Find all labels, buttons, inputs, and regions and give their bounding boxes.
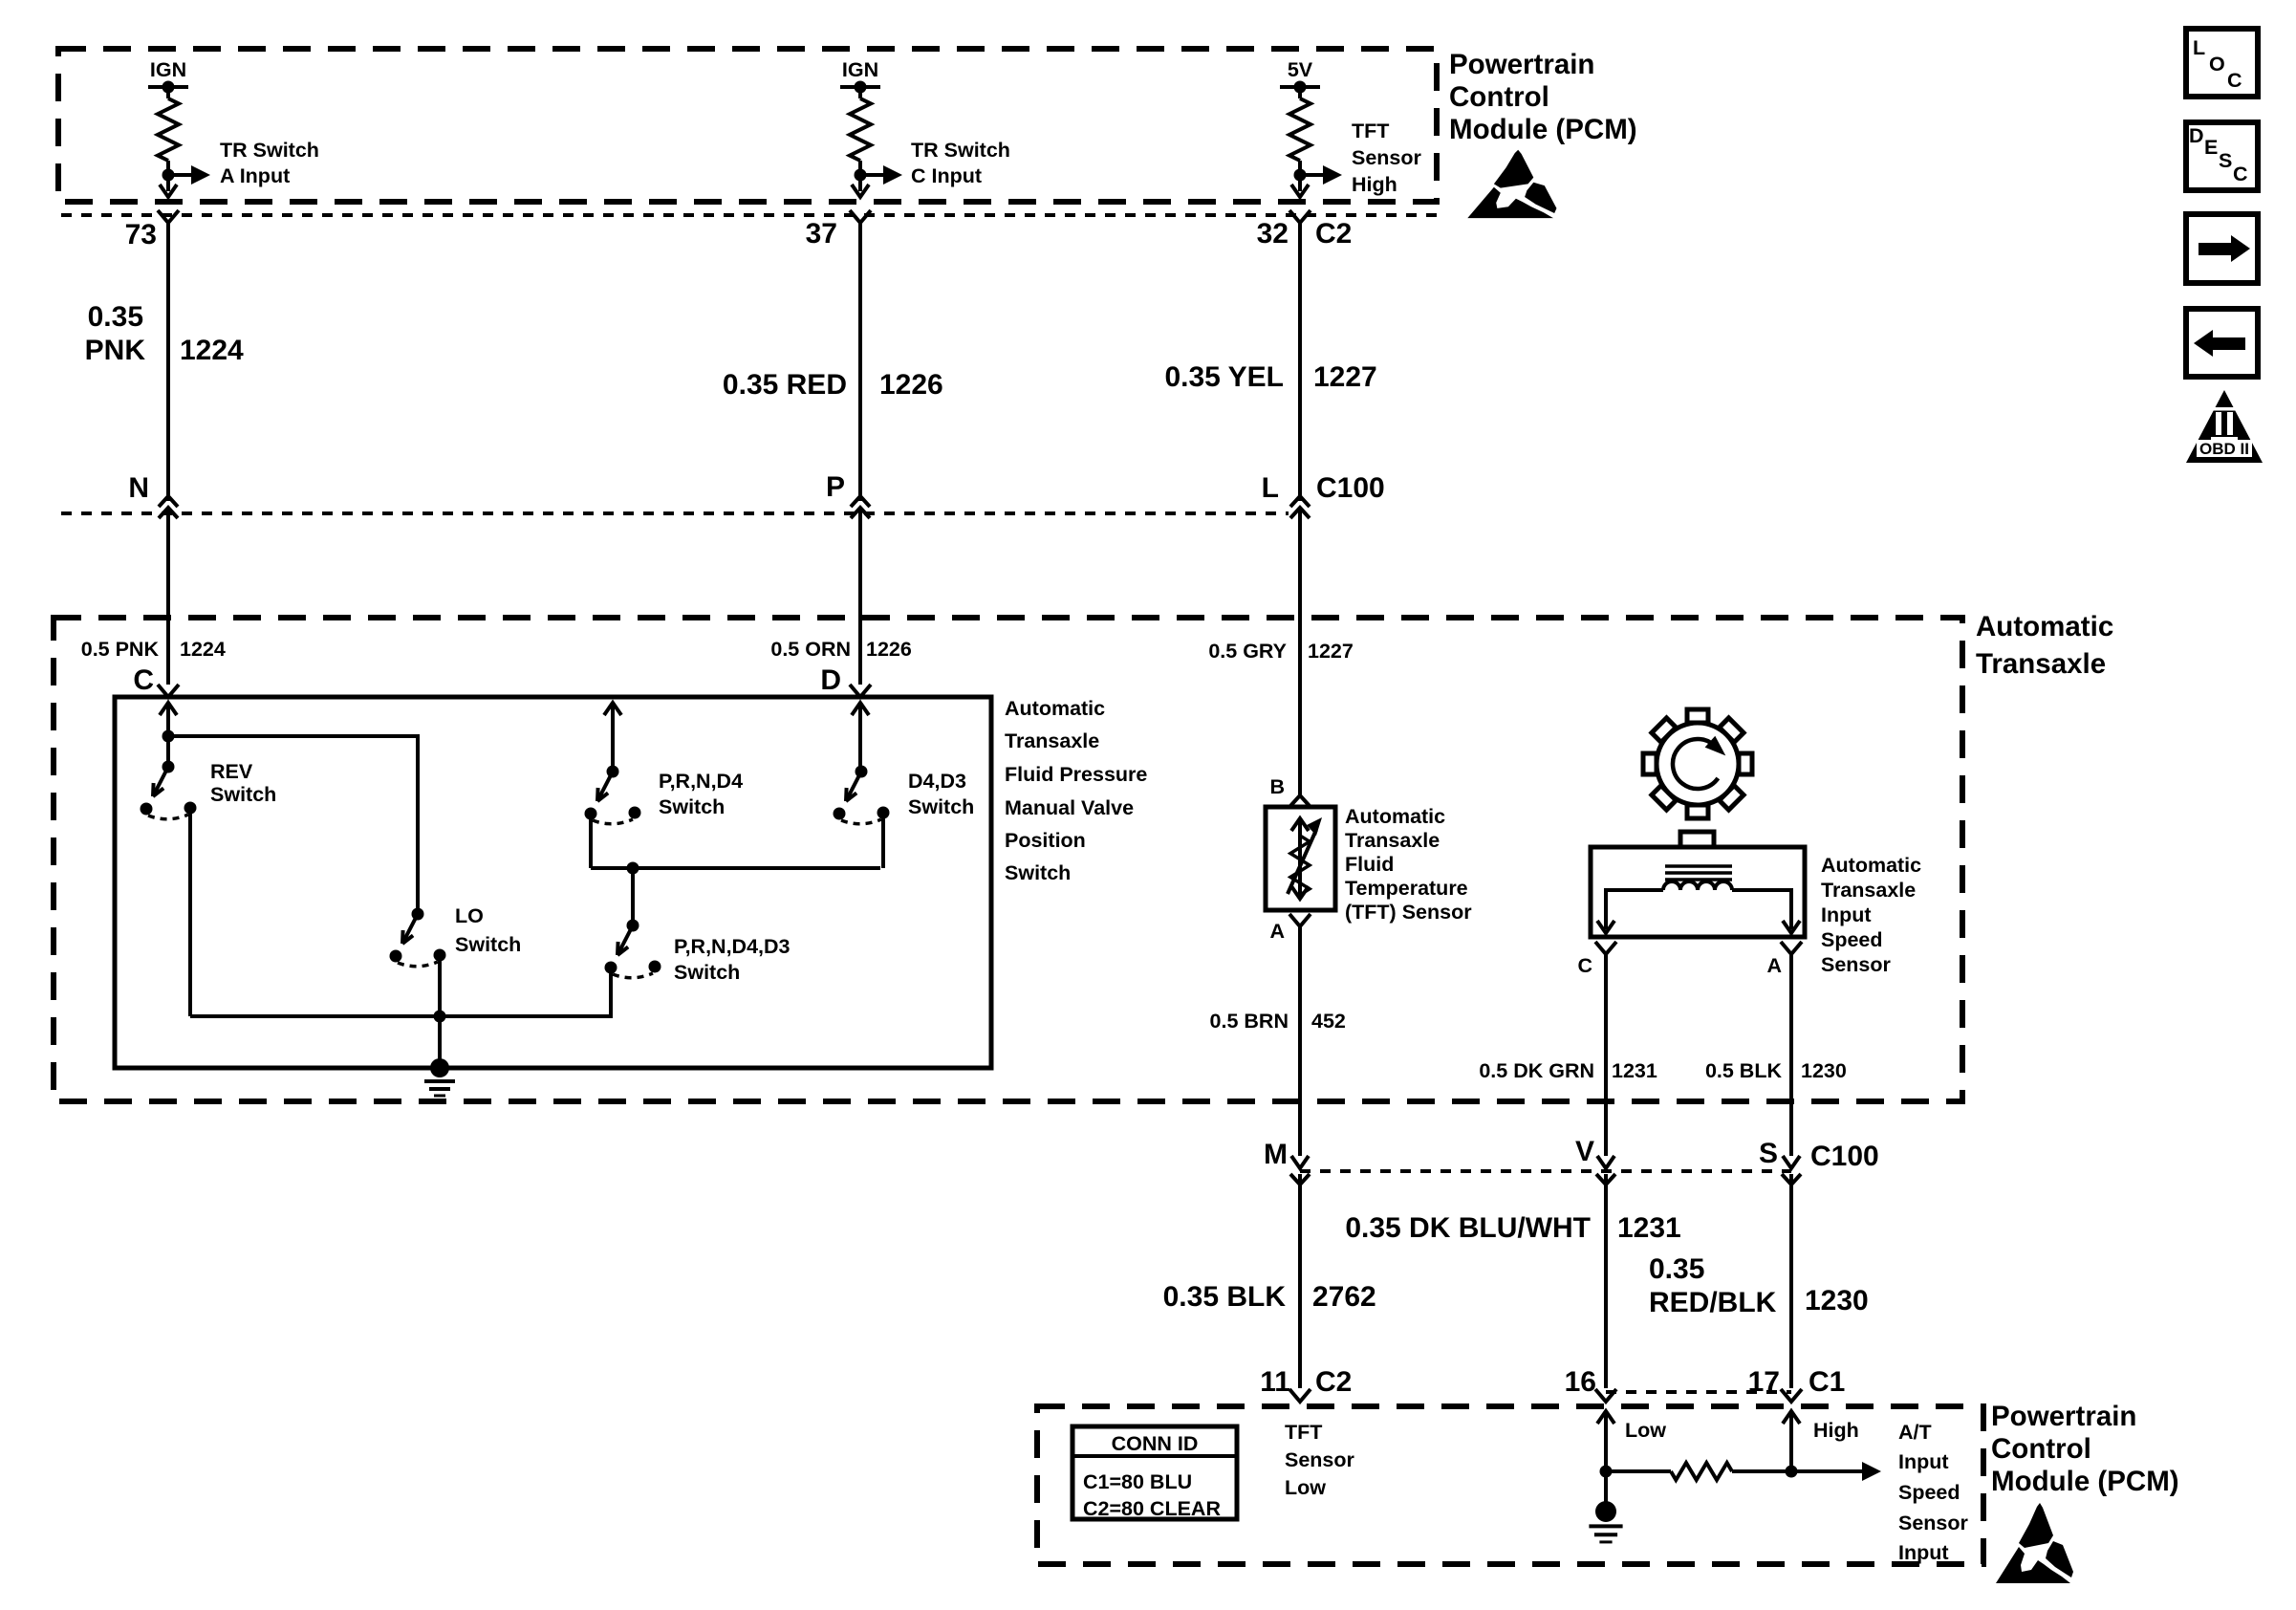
power feed bar x=1360 xyxy=(1280,85,1320,89)
forward arrow icon box xyxy=(2186,214,2258,283)
svg-text:P,R,N,D4: P,R,N,D4 xyxy=(659,770,743,793)
down arrowhead at speed sensor A pin xyxy=(1783,921,1800,933)
svg-text:Transaxle: Transaxle xyxy=(1821,879,1916,902)
down arrowhead at speed sensor C pin xyxy=(1597,921,1614,933)
wire 0.35 YEL 1227 upper segment xyxy=(1298,223,1302,501)
connector Y at speed sensor terminal C xyxy=(1595,942,1616,954)
svg-text:L: L xyxy=(2193,36,2205,59)
svg-text:1231: 1231 xyxy=(1612,1059,1657,1082)
svg-text:0.5 PNK: 0.5 PNK xyxy=(81,638,160,661)
branch wire to input arrow x=176 xyxy=(168,173,191,177)
junction dot to input arrow x=1360 xyxy=(1294,169,1307,182)
ESD sensitivity symbol (top PCM) xyxy=(1467,150,1556,218)
TFT sensor variable resistor symbol xyxy=(1288,817,1322,899)
svg-text:C2=80 CLEAR: C2=80 CLEAR xyxy=(1083,1497,1221,1520)
dashed connector segment between pins 16 and 17 xyxy=(1606,1390,1791,1394)
connector C100 chevrons x=900 xyxy=(851,496,870,507)
svg-text:Automatic: Automatic xyxy=(1976,611,2113,642)
junction dot LO wire and ground bus xyxy=(434,1011,446,1023)
wire D entry down to D4,D3 switch pivot xyxy=(858,703,862,772)
svg-text:TR Switch: TR Switch xyxy=(911,139,1010,162)
P,R,N,D4 Switch xyxy=(585,766,641,824)
speed sensor internal wire to A pin xyxy=(1732,890,1791,929)
wire 0.5 GRY 1227 into transaxle xyxy=(1298,508,1302,794)
svg-text:0.35: 0.35 xyxy=(1649,1253,1704,1285)
svg-text:C: C xyxy=(133,664,154,696)
pull-up resistor x=1360 xyxy=(1289,98,1310,161)
wire pin 16 down to ground xyxy=(1604,1411,1608,1503)
connector chevron below C100 line x=1680 xyxy=(1596,1174,1615,1185)
svg-text:Sensor: Sensor xyxy=(1898,1512,1969,1534)
svg-text:LO: LO xyxy=(455,904,484,927)
svg-text:0.35: 0.35 xyxy=(88,301,143,333)
svg-text:C Input: C Input xyxy=(911,164,982,187)
svg-text:0.35 BLK: 0.35 BLK xyxy=(1163,1281,1287,1313)
svg-text:Input: Input xyxy=(1898,1541,1949,1564)
svg-text:Switch: Switch xyxy=(659,795,725,818)
svg-text:P: P xyxy=(826,471,845,503)
svg-text:Control: Control xyxy=(1449,81,1549,113)
svg-text:P,R,N,D4,D3: P,R,N,D4,D3 xyxy=(674,935,791,958)
junction dot to input arrow x=900 xyxy=(855,169,867,182)
svg-text:B: B xyxy=(1269,775,1285,798)
wire resistor to A/T input arrow xyxy=(1732,1469,1866,1473)
svg-text:D4,D3: D4,D3 xyxy=(908,770,966,793)
speed sensor coil xyxy=(1663,881,1732,890)
svg-text:C1=80 BLU: C1=80 BLU xyxy=(1083,1470,1192,1493)
svg-text:5V: 5V xyxy=(1288,58,1313,81)
svg-text:Switch: Switch xyxy=(210,783,276,806)
power feed junction dot x=900 xyxy=(855,81,867,94)
svg-text:Module (PCM): Module (PCM) xyxy=(1991,1466,2179,1497)
svg-text:TR Switch: TR Switch xyxy=(220,139,319,162)
svg-text:TFT: TFT xyxy=(1352,120,1389,142)
up arrowhead at C entry inside valve switch box xyxy=(160,703,177,715)
svg-text:Sensor: Sensor xyxy=(1352,146,1422,169)
svg-text:Speed: Speed xyxy=(1898,1481,1960,1504)
svg-text:Fluid: Fluid xyxy=(1345,853,1394,876)
svg-text:TFT: TFT xyxy=(1285,1421,1322,1444)
svg-text:Powertrain: Powertrain xyxy=(1449,49,1594,80)
wire 0.35 PNK 1224 upper segment xyxy=(166,223,170,501)
LOC navigation icon box xyxy=(2186,29,2258,97)
svg-text:S: S xyxy=(2219,149,2232,172)
svg-text:A/T: A/T xyxy=(1898,1421,1932,1444)
wire 0.5 BRN 452 xyxy=(1298,926,1302,1156)
svg-text:452: 452 xyxy=(1311,1010,1346,1033)
svg-text:C: C xyxy=(2227,69,2242,92)
down arrowhead at PCM box exit x=1360 xyxy=(1291,185,1309,197)
connector Y at terminal C xyxy=(158,685,179,697)
svg-text:L: L xyxy=(1262,472,1279,504)
svg-text:1231: 1231 xyxy=(1617,1212,1681,1244)
svg-text:1226: 1226 xyxy=(866,638,912,661)
svg-text:1230: 1230 xyxy=(1801,1059,1847,1082)
svg-text:1224: 1224 xyxy=(180,335,244,366)
connector Y at TFT terminal A xyxy=(1289,914,1310,926)
connector C100 (lower) dashed splice line xyxy=(1300,1169,1791,1173)
connector C2 Y symbol x=1360 xyxy=(1289,210,1310,223)
up arrowhead at D entry inside valve switch box xyxy=(852,703,869,715)
svg-text:Transaxle: Transaxle xyxy=(1345,829,1440,852)
down arrowhead at PCM box exit x=900 xyxy=(852,185,869,197)
wire 0.35 RED/BLK 1230 xyxy=(1789,1174,1793,1388)
wire from REV switch right contact down to ground bus xyxy=(188,809,192,1016)
svg-text:Switch: Switch xyxy=(1005,861,1071,884)
connector Y at terminal D xyxy=(850,685,871,697)
up arrowhead at pin 16 inside PCM xyxy=(1597,1411,1614,1424)
connector Y at bottom PCM pin x=1874 xyxy=(1781,1389,1802,1402)
wire from P,R,N,D4 left contact down to bus xyxy=(589,814,593,868)
svg-text:S: S xyxy=(1759,1138,1778,1169)
svg-text:Low: Low xyxy=(1285,1476,1326,1499)
branch wire from C junction to LO switch xyxy=(168,736,418,914)
connector C100 chevrons x=1360 xyxy=(1290,496,1310,507)
pull-up resistor x=900 xyxy=(850,98,871,161)
junction dot high reference xyxy=(1786,1466,1798,1478)
svg-text:OBD II: OBD II xyxy=(2199,440,2249,458)
svg-text:Automatic: Automatic xyxy=(1005,697,1105,720)
wire 0.5 PNK 1224 into transaxle xyxy=(166,508,170,685)
svg-text:0.5 GRY: 0.5 GRY xyxy=(1208,640,1287,663)
wire junction to internal resistor xyxy=(1606,1469,1671,1473)
wire resistor to output x=176 xyxy=(166,161,170,191)
svg-text:High: High xyxy=(1813,1419,1859,1442)
PCM (top) dashed enclosure box xyxy=(58,49,1437,202)
svg-text:D: D xyxy=(820,664,841,696)
junction dot C branch xyxy=(162,730,175,743)
svg-text:0.5 BRN: 0.5 BRN xyxy=(1210,1010,1289,1033)
wire from feed to resistor x=900 xyxy=(858,87,862,98)
connector C2 Y symbol x=900 xyxy=(850,210,871,223)
svg-text:Sensor: Sensor xyxy=(1821,953,1892,976)
wire 0.35 RED 1226 upper segment xyxy=(858,223,862,501)
svg-text:M: M xyxy=(1264,1139,1288,1170)
connector C100 chevrons x=176 xyxy=(159,496,178,507)
svg-text:E: E xyxy=(2204,136,2218,159)
svg-text:0.35 DK BLU/WHT: 0.35 DK BLU/WHT xyxy=(1345,1212,1591,1244)
input signal arrow x=176 xyxy=(191,165,210,185)
ESD sensitivity symbol (bottom PCM) xyxy=(1996,1503,2073,1583)
internal resistor (speed sensor input) xyxy=(1671,1463,1732,1480)
wire down to P,R,N,D4 switch pivot xyxy=(611,703,615,772)
wire C entry down to REV switch pivot xyxy=(166,703,170,767)
REV Switch xyxy=(141,761,197,819)
svg-text:0.5 ORN: 0.5 ORN xyxy=(770,638,851,661)
svg-text:0.35 RED: 0.35 RED xyxy=(723,369,847,401)
wire pin 17 down to junction xyxy=(1789,1411,1793,1471)
wire 0.5 ORN 1226 into transaxle xyxy=(858,508,862,685)
svg-text:Switch: Switch xyxy=(455,933,521,956)
connector chevron below C100 line x=1360 xyxy=(1290,1174,1310,1185)
A/T input speed sensor input arrow xyxy=(1862,1462,1881,1481)
down arrowhead at PCM box exit x=176 xyxy=(160,185,177,197)
wire 0.5 DK GRN 1231 xyxy=(1604,954,1608,1156)
branch wire to input arrow x=900 xyxy=(860,173,883,177)
connector C100 dashed splice line xyxy=(61,511,1289,515)
PCM (bottom) dashed enclosure box xyxy=(1037,1406,1983,1564)
wire from bus junction to P,R,N,D4,D3 pivot xyxy=(631,868,635,925)
junction dot on switch bus xyxy=(627,862,639,875)
ground symbol (valve position switch) xyxy=(424,1058,455,1096)
speed sensor core lines xyxy=(1665,864,1732,868)
svg-text:N: N xyxy=(128,472,149,504)
svg-text:O: O xyxy=(2209,53,2225,76)
wire resistor to output x=1360 xyxy=(1298,161,1302,191)
up arrowhead at pin 17 inside PCM xyxy=(1783,1411,1800,1424)
svg-text:1224: 1224 xyxy=(180,638,226,661)
wire from D4,D3 right contact down to bus xyxy=(881,814,885,868)
power feed junction dot x=1360 xyxy=(1294,81,1307,94)
svg-text:0.5 BLK: 0.5 BLK xyxy=(1705,1059,1783,1082)
power feed bar x=900 xyxy=(840,85,880,89)
svg-text:32: 32 xyxy=(1257,218,1289,250)
connector C2 Y symbol x=176 xyxy=(158,210,179,223)
DESC navigation icon box xyxy=(2186,122,2258,190)
svg-text:A: A xyxy=(1269,920,1285,943)
speed sensor mounting tab xyxy=(1680,832,1714,847)
svg-text:Transaxle: Transaxle xyxy=(1976,648,2106,680)
svg-text:Low: Low xyxy=(1625,1419,1666,1442)
svg-text:C2: C2 xyxy=(1315,218,1352,250)
svg-text:17: 17 xyxy=(1748,1366,1780,1398)
speed sensor internal wire to C pin xyxy=(1606,890,1663,929)
wire 0.35 DK BLU/WHT 1231 xyxy=(1604,1174,1608,1388)
connector Y at bottom PCM pin x=1680 xyxy=(1595,1389,1616,1402)
gear icon (input speed sensor rotor) xyxy=(1643,709,1752,818)
svg-text:37: 37 xyxy=(806,218,837,250)
ground bus wire to P,R,N,D4,D3 left contact xyxy=(190,968,611,1016)
svg-text:73: 73 xyxy=(125,219,157,250)
svg-text:Input: Input xyxy=(1898,1450,1949,1473)
svg-text:CONN ID: CONN ID xyxy=(1112,1432,1199,1455)
svg-text:1227: 1227 xyxy=(1313,361,1377,393)
OBD II triangle icon xyxy=(2186,390,2263,463)
svg-text:Module (PCM): Module (PCM) xyxy=(1449,114,1637,145)
svg-text:V: V xyxy=(1575,1136,1594,1167)
svg-text:Powertrain: Powertrain xyxy=(1991,1401,2136,1432)
svg-text:Switch: Switch xyxy=(674,961,740,984)
down arrowhead at C100 lower connector x=1874 xyxy=(1783,1156,1800,1168)
svg-text:0.35 YEL: 0.35 YEL xyxy=(1164,361,1284,393)
svg-text:16: 16 xyxy=(1565,1366,1596,1398)
svg-text:Input: Input xyxy=(1821,903,1872,926)
Automatic Transaxle Fluid Temperature (TFT) Sensor box xyxy=(1266,807,1335,910)
svg-text:Temperature: Temperature xyxy=(1345,877,1468,900)
svg-text:C2: C2 xyxy=(1315,1366,1352,1398)
connector chevron at TFT sensor terminal B xyxy=(1290,795,1310,806)
svg-text:C: C xyxy=(2233,163,2248,185)
connector Y at speed sensor terminal A xyxy=(1781,942,1802,954)
Automatic Transaxle Input Speed Sensor box xyxy=(1591,847,1805,937)
connector C2 dashed splice line xyxy=(61,213,1437,217)
svg-text:Automatic: Automatic xyxy=(1345,805,1445,828)
svg-text:PNK: PNK xyxy=(85,335,146,366)
svg-text:11: 11 xyxy=(1260,1366,1290,1398)
wire 0.5 BLK 1230 xyxy=(1789,954,1793,1156)
svg-text:Manual Valve: Manual Valve xyxy=(1005,796,1134,819)
svg-text:A: A xyxy=(1766,954,1782,977)
power feed bar x=176 xyxy=(148,85,188,89)
P,R,N,D4,D3 Switch xyxy=(605,920,661,978)
svg-text:C100: C100 xyxy=(1316,472,1385,504)
input signal arrow x=900 xyxy=(883,165,902,185)
svg-text:A Input: A Input xyxy=(220,164,290,187)
power feed junction dot x=176 xyxy=(162,81,175,94)
pull-up resistor x=176 xyxy=(158,98,179,161)
down arrowhead at C100 lower connector x=1680 xyxy=(1597,1156,1614,1168)
svg-text:C1: C1 xyxy=(1809,1366,1845,1398)
CONN ID table header separator xyxy=(1072,1454,1237,1458)
svg-text:Speed: Speed xyxy=(1821,928,1883,951)
svg-text:D: D xyxy=(2189,124,2204,147)
svg-text:C100: C100 xyxy=(1810,1141,1879,1172)
input signal arrow x=1360 xyxy=(1323,165,1342,185)
svg-text:Position: Position xyxy=(1005,829,1086,852)
branch wire to input arrow x=1360 xyxy=(1300,173,1323,177)
down arrowhead at C100 lower connector x=1360 xyxy=(1291,1156,1309,1168)
D4,D3 Switch xyxy=(834,766,890,824)
junction dot low reference xyxy=(1600,1466,1613,1478)
svg-text:Sensor: Sensor xyxy=(1285,1448,1355,1471)
svg-text:High: High xyxy=(1352,173,1397,196)
back arrow icon box xyxy=(2186,309,2258,377)
svg-text:(TFT) Sensor: (TFT) Sensor xyxy=(1345,901,1472,924)
svg-text:Fluid Pressure: Fluid Pressure xyxy=(1005,763,1147,786)
bus wire joining P,R,N,D4 and D4,D3 contacts xyxy=(591,866,880,870)
svg-text:REV: REV xyxy=(210,760,253,783)
Automatic Transaxle dashed enclosure box xyxy=(54,618,1962,1101)
svg-text:1230: 1230 xyxy=(1805,1285,1869,1316)
connector chevron below C100 line x=1874 xyxy=(1782,1174,1801,1185)
svg-text:Control: Control xyxy=(1991,1433,2091,1465)
svg-text:1226: 1226 xyxy=(879,369,943,401)
connector Y at bottom PCM pin x=1360 xyxy=(1289,1389,1310,1402)
svg-text:Transaxle: Transaxle xyxy=(1005,729,1099,752)
wire resistor to output x=900 xyxy=(858,161,862,191)
wire 0.35 BLK 2762 xyxy=(1298,1174,1302,1388)
svg-text:Automatic: Automatic xyxy=(1821,854,1921,877)
junction dot to input arrow x=176 xyxy=(162,169,175,182)
svg-text:C: C xyxy=(1577,954,1592,977)
wire from feed to resistor x=1360 xyxy=(1298,87,1302,98)
up arrowhead at P,R,N,D4 column inside box xyxy=(604,703,621,715)
svg-text:0.5 DK GRN: 0.5 DK GRN xyxy=(1479,1059,1594,1082)
svg-text:Switch: Switch xyxy=(908,795,974,818)
ground symbol (PCM internal) xyxy=(1589,1501,1622,1542)
wire from LO switch right contact down to ground xyxy=(438,955,442,1068)
CONN ID table box xyxy=(1072,1426,1237,1519)
svg-text:IGN: IGN xyxy=(842,58,878,81)
svg-text:1227: 1227 xyxy=(1308,640,1354,663)
wire from feed to resistor x=176 xyxy=(166,87,170,98)
svg-text:2762: 2762 xyxy=(1312,1281,1376,1313)
Automatic Transaxle Fluid Pressure Manual Valve Position Switch box xyxy=(115,697,991,1068)
LO Switch xyxy=(390,908,446,967)
svg-text:IGN: IGN xyxy=(150,58,186,81)
svg-text:RED/BLK: RED/BLK xyxy=(1649,1287,1777,1318)
